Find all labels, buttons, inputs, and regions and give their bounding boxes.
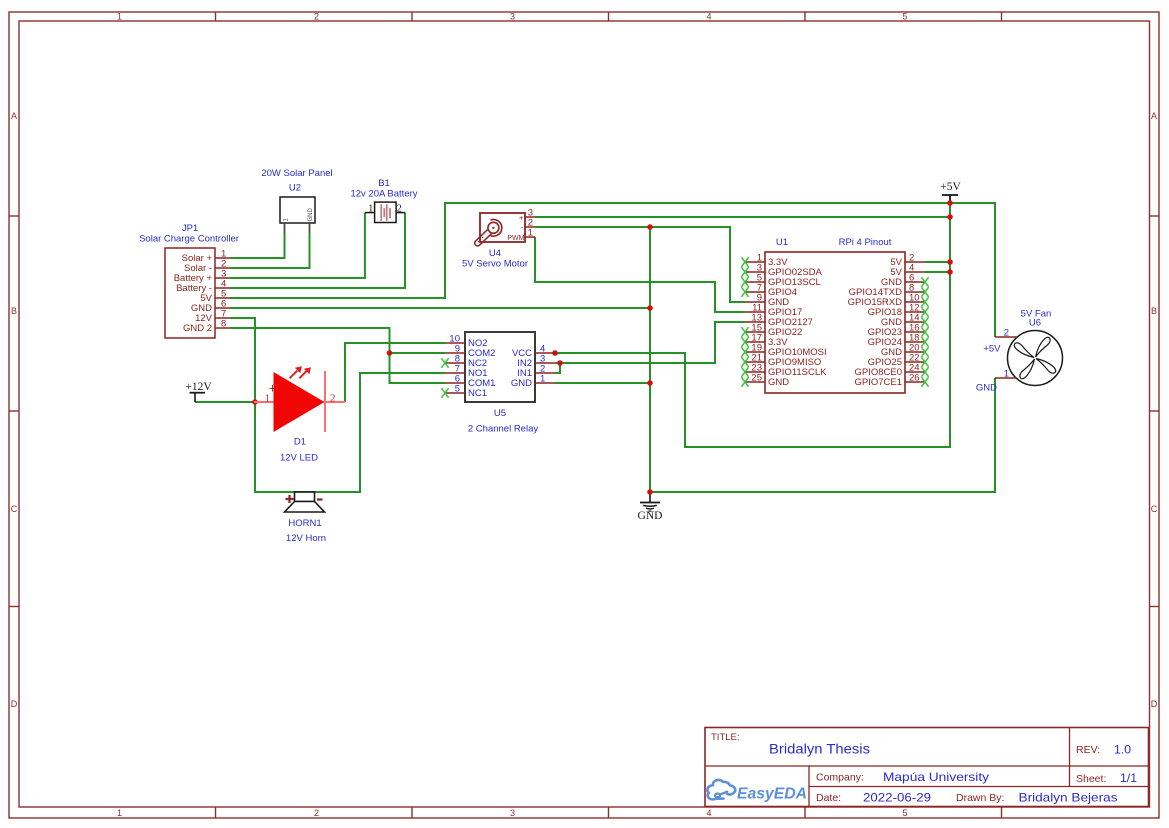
- wire U5.NO2 to D1 cathode: [345, 343, 445, 402]
- junction: [947, 214, 953, 220]
- junction: [947, 259, 953, 265]
- svg-text:HORN1: HORN1: [288, 518, 321, 529]
- svg-text:-: -: [521, 223, 524, 232]
- svg-text:A: A: [11, 111, 17, 121]
- svg-text:D: D: [1151, 699, 1158, 709]
- svg-text:3: 3: [510, 808, 515, 818]
- horn HORN1: [285, 492, 327, 544]
- svg-text:12V Horn: 12V Horn: [286, 533, 326, 544]
- svg-text:Sheet:: Sheet:: [1076, 773, 1106, 785]
- svg-text:GND: GND: [638, 510, 663, 522]
- wire JP1.8 GND2 to U5.COM2/COM1: [230, 328, 445, 383]
- svg-text:Solar Charge Controller: Solar Charge Controller: [139, 234, 239, 245]
- svg-text:5V Servo Motor: 5V Servo Motor: [462, 259, 528, 270]
- junction: [647, 489, 653, 495]
- connector JP1 Solar Charge Controller: [139, 223, 239, 338]
- svg-text:+12V: +12V: [185, 381, 212, 393]
- svg-text:25: 25: [751, 373, 762, 384]
- wire GND to fan pin1: [650, 378, 995, 492]
- svg-text:PWM: PWM: [507, 235, 524, 242]
- svg-text:Bridalyn Bejeras: Bridalyn Bejeras: [1019, 791, 1118, 805]
- svg-text:B: B: [1151, 306, 1157, 316]
- svg-text:20W Solar Panel: 20W Solar Panel: [261, 168, 332, 179]
- svg-text:GND: GND: [976, 383, 997, 394]
- svg-text:Company:: Company:: [816, 772, 864, 784]
- svg-text:+5V: +5V: [983, 344, 1001, 355]
- wire U5.IN2 to U1 pin13 GPIO2127: [555, 322, 745, 363]
- title block: [705, 728, 1149, 807]
- svg-text:1: 1: [528, 228, 533, 239]
- svg-text:1: 1: [117, 12, 122, 22]
- svg-text:1: 1: [117, 808, 122, 818]
- wire +5V net: JP1.5 up and across top: [230, 203, 995, 337]
- wire U1 pin2 to +5V: [925, 261, 950, 263]
- svg-text:2: 2: [314, 12, 319, 22]
- svg-text:1/1: 1/1: [1120, 771, 1137, 785]
- svg-text:1: 1: [368, 204, 373, 215]
- fan U6 5V Fan: [976, 309, 1063, 394]
- svg-text:GND 2: GND 2: [183, 323, 212, 334]
- svg-text:U2: U2: [289, 183, 301, 194]
- junction: [647, 224, 653, 230]
- svg-text:1: 1: [265, 393, 271, 405]
- power +12V symbol: [185, 381, 212, 402]
- svg-text:2: 2: [314, 808, 319, 818]
- EasyEDA logo: [707, 780, 807, 803]
- wire +5V vertical to U5.VCC: [555, 195, 950, 447]
- ground GND symbol: [638, 492, 663, 522]
- svg-text:8: 8: [221, 319, 226, 330]
- svg-text:B1: B1: [378, 178, 390, 189]
- svg-text:U5: U5: [494, 408, 506, 419]
- svg-text:U1: U1: [776, 237, 788, 248]
- wire GND vertical: [649, 227, 651, 492]
- svg-text:Date:: Date:: [816, 792, 841, 804]
- wire JP1.3 to B1.1: [230, 213, 365, 278]
- junction: [552, 350, 558, 356]
- svg-text:5: 5: [902, 12, 907, 22]
- svg-text:GND: GND: [308, 208, 314, 222]
- svg-text:1: 1: [540, 374, 545, 385]
- wire COM2 branch: [390, 352, 446, 354]
- svg-text:C: C: [1151, 504, 1158, 514]
- wire servo - to U1 pin9 GND: [535, 227, 745, 302]
- svg-text:A: A: [1151, 111, 1157, 121]
- no-connect mark U5 NC2: [441, 358, 448, 368]
- svg-text:REV:: REV:: [1076, 744, 1100, 756]
- svg-text:2 Channel Relay: 2 Channel Relay: [468, 424, 538, 435]
- wire +12V symbol to node: [195, 401, 255, 403]
- servo motor U4: [462, 208, 535, 270]
- wire +12V net: JP1.7 down to D1 anode: [230, 318, 255, 402]
- svg-text:+: +: [519, 214, 524, 223]
- svg-text:5: 5: [902, 808, 907, 818]
- junction: [947, 200, 953, 206]
- wire U1 pin4 to +5V: [925, 271, 950, 273]
- svg-text:2: 2: [330, 393, 336, 405]
- svg-text:GND: GND: [768, 377, 789, 388]
- battery B1: [350, 178, 417, 223]
- LED D1: [254, 366, 345, 463]
- wire JP1.2 to U2.GND: [230, 233, 310, 268]
- no-connect mark U5 NC1: [441, 388, 448, 398]
- svg-text:U4: U4: [489, 248, 501, 259]
- solar panel U2: [261, 168, 332, 233]
- svg-text:U6: U6: [1029, 318, 1041, 329]
- svg-text:1.0: 1.0: [1114, 743, 1131, 757]
- svg-text:4: 4: [706, 12, 711, 22]
- junction: [557, 360, 563, 366]
- junction: [647, 380, 653, 386]
- svg-text:Bridalyn Thesis: Bridalyn Thesis: [769, 742, 870, 757]
- svg-text:B: B: [11, 306, 17, 316]
- svg-text:Drawn By:: Drawn By:: [956, 792, 1004, 804]
- wire servo + to +5V: [535, 216, 950, 218]
- svg-text:Mapúa University: Mapúa University: [883, 770, 989, 784]
- svg-text:2: 2: [397, 204, 402, 215]
- svg-text:12v 20A Battery: 12v 20A Battery: [350, 189, 417, 200]
- wire U5.IN1 to IN2 node: [555, 363, 560, 373]
- svg-text:NC1: NC1: [468, 388, 487, 399]
- svg-text:GND: GND: [511, 378, 532, 389]
- svg-text:TITLE:: TITLE:: [711, 732, 740, 743]
- wire JP1.4 to B1.2: [230, 213, 405, 288]
- wire JP1.1 to U2.1: [230, 233, 285, 258]
- no-connect marks U1 right pins: [921, 277, 928, 387]
- relay U5 2 Channel Relay: [445, 332, 555, 435]
- junction: [647, 305, 653, 311]
- wire servo PWM to U1 pin11 GPIO17: [535, 237, 745, 312]
- svg-text:1: 1: [1004, 369, 1009, 380]
- power +5V symbol: [940, 181, 961, 203]
- junction: [947, 269, 953, 275]
- no-connect marks U1 left pins: [741, 257, 748, 387]
- svg-text:+5V: +5V: [940, 181, 961, 193]
- svg-text:RPi 4 Pinout: RPi 4 Pinout: [839, 237, 892, 248]
- svg-text:4: 4: [706, 808, 711, 818]
- IC U1 RPi 4 Pinout: [745, 237, 925, 393]
- svg-text:12V LED: 12V LED: [280, 453, 318, 464]
- svg-text:D1: D1: [294, 437, 306, 448]
- svg-text:2022-06-29: 2022-06-29: [863, 791, 931, 805]
- wire JP1.6 GND: [230, 307, 650, 309]
- svg-text:2: 2: [1004, 328, 1009, 339]
- svg-text:C: C: [11, 504, 18, 514]
- junction: [252, 399, 258, 405]
- wire U5.GND pin1: [555, 382, 650, 384]
- svg-text:5: 5: [455, 384, 460, 395]
- svg-text:GPIO7CE1: GPIO7CE1: [854, 377, 902, 388]
- svg-text:D: D: [11, 699, 18, 709]
- svg-text:26: 26: [909, 373, 920, 384]
- svg-text:JP1: JP1: [182, 223, 198, 234]
- svg-text:EasyEDA: EasyEDA: [737, 786, 807, 803]
- wire D1 anode down to horn and U5.NO1: [255, 373, 445, 492]
- junction: [387, 350, 393, 356]
- svg-text:3: 3: [510, 12, 515, 22]
